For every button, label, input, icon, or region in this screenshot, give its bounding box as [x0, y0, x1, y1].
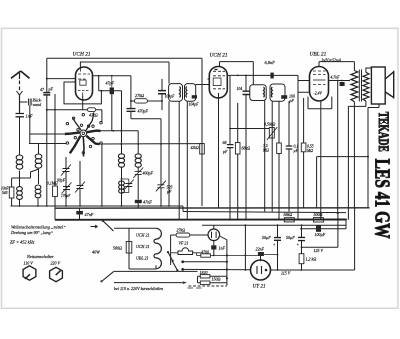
svg-text:500Ω: 500Ω [314, 212, 323, 217]
svg-text:110 V: 110 V [24, 260, 34, 265]
tube V3 UBL21 [310, 67, 329, 102]
IF T2 loop2 [270, 84, 285, 101]
wire grid to tube V1 [47, 78, 76, 80]
V1 internals [78, 68, 90, 96]
capacitor C 47pF grid1 [43, 93, 50, 95]
svg-text:UY 21: UY 21 [253, 284, 267, 290]
V4 wires [271, 269, 355, 271]
svg-text:27kΩ: 27kΩ [177, 228, 186, 233]
wire vertical x66 [65, 157, 67, 206]
V1 top cap wire [80, 62, 169, 84]
resistor R 47k [88, 108, 96, 112]
wire cathode row [47, 109, 88, 111]
switch contact dots [66, 114, 102, 155]
capacitor C 50uF b [298, 237, 305, 240]
bus R5 [183, 212, 346, 213]
V3 top wire to transformer [319, 62, 354, 71]
IF T1 cap 104pF [158, 91, 166, 94]
svg-text:TEKADE: TEKADE [375, 112, 391, 152]
svg-text:4700: 4700 [201, 249, 209, 254]
wire rueckwand to switch [30, 106, 65, 144]
wire y91 [99, 91, 122, 154]
coil L3 [35, 185, 41, 189]
resistor R 4700 [201, 254, 211, 257]
svg-text:pF: pF [166, 189, 172, 194]
V1 bottom loop [64, 82, 101, 104]
wire vertical x46.8 [46, 58, 48, 206]
svg-text:1820: 1820 [200, 270, 208, 275]
svg-text:UCH 21: UCH 21 [210, 53, 228, 59]
resistor R 27k heater [176, 233, 190, 237]
svg-text:VF 21: VF 21 [179, 241, 189, 246]
wire vertical x55 [54, 94, 56, 206]
lamp barretter [208, 229, 220, 241]
coil L1 [16, 155, 23, 160]
svg-text:100µF: 100µF [315, 232, 326, 237]
svg-text:42kΩ: 42kΩ [191, 146, 199, 150]
capacitor C 47pF grid2 [110, 88, 114, 95]
svg-text:pF: pF [222, 149, 228, 154]
switch S4 bottom [102, 272, 114, 282]
svg-text:22nF: 22nF [256, 247, 265, 252]
svg-text:LES 41 GW: LES 41 GW [371, 159, 395, 239]
svg-text:115 V: 115 V [281, 270, 291, 275]
T1 to V2 [196, 79, 210, 85]
oscillator vertical x130.9 [130, 76, 132, 109]
tube V1 UCH21 [76, 67, 93, 100]
svg-text:47pF: 47pF [106, 81, 115, 86]
T1 downs [168, 101, 170, 206]
secondary top to speaker [366, 68, 372, 72]
V3 socket box [308, 97, 332, 109]
resistor R 58k [284, 218, 294, 222]
V2 top wire [220, 62, 254, 85]
wire 125V [302, 213, 338, 248]
bus R4 [202, 224, 346, 226]
svg-text:Netzumschalter: Netzumschalter [26, 254, 54, 259]
resistor R 27k [134, 99, 147, 103]
trimmer C T2 [75, 182, 85, 193]
capacitor C 50uF a [274, 238, 281, 241]
variable capacitor C 400pF [133, 168, 143, 179]
V4 internals [257, 266, 262, 274]
V2 cathode down [218, 93, 220, 208]
svg-text:540: 540 [2, 191, 8, 195]
wire antenna down [19, 117, 21, 155]
bus R1 [11, 205, 184, 207]
svg-text:47nF: 47nF [85, 212, 94, 217]
capacitor C1 1nF [16, 114, 25, 117]
capacitor C 22nF black [258, 252, 264, 256]
wire y156 [317, 157, 368, 209]
svg-text:MΩ: MΩ [262, 149, 269, 153]
svg-text:68: 68 [223, 140, 227, 145]
svg-text:220 V: 220 V [51, 260, 61, 265]
knob K2 [50, 267, 63, 281]
bus R6 [300, 228, 346, 230]
capacitor C 47nF bus [76, 211, 83, 215]
svg-text:50µF: 50µF [262, 235, 271, 240]
T2 downs [264, 101, 266, 212]
tube V2 UCH21 [209, 67, 227, 98]
wire x102 down [101, 144, 103, 206]
svg-text:580Ω: 580Ω [113, 246, 122, 251]
svg-text:104: 104 [237, 87, 243, 91]
heater chain coils [154, 228, 161, 268]
svg-text:UCH 21: UCH 21 [73, 52, 91, 58]
bus R2 [55, 207, 370, 209]
svg-text:104pF: 104pF [165, 95, 176, 99]
trimmer C T1 [62, 183, 72, 194]
T4 core [359, 70, 361, 102]
coil L1b [17, 187, 23, 191]
svg-text:UCH 21: UCH 21 [136, 233, 149, 238]
capacitor C 68pF [227, 145, 234, 148]
IF T2 loop1 [250, 85, 266, 101]
svg-text:1nF: 1nF [26, 114, 33, 119]
wire AVC line [98, 143, 202, 145]
bus R3 heavy [55, 219, 346, 221]
trimmer C 525pF [156, 181, 166, 192]
svg-text:27kΩ: 27kΩ [135, 93, 144, 98]
coil L6 [119, 181, 125, 185]
outer loop [354, 208, 356, 270]
capacitor C 0,1uF [286, 146, 293, 149]
svg-text:+: + [297, 242, 300, 247]
capacitor C 100uF black [316, 225, 321, 232]
V2 plate wire [227, 74, 298, 76]
svg-text:bei 110 u. 220V kurzschließen: bei 110 u. 220V kurzschließen [114, 286, 163, 291]
resistor R 1,2k [299, 254, 304, 264]
wave switch S1 [65, 113, 101, 157]
IF T1 loop1 [169, 84, 183, 102]
svg-text:400pF: 400pF [143, 171, 154, 176]
secondary bottom return [348, 101, 366, 220]
coil L2 [35, 154, 42, 159]
svg-text:470pF: 470pF [138, 109, 149, 114]
svg-text:150Ω: 150Ω [212, 277, 221, 282]
svg-text:68kΩ: 68kΩ [242, 146, 251, 151]
V3 anode wire [329, 80, 351, 82]
svg-text:wand: wand [33, 102, 43, 107]
svg-text:10nF: 10nF [1, 187, 9, 191]
resistor R 150 [200, 281, 210, 284]
switch S3 contacts [168, 252, 173, 260]
V1 right pin wire [93, 75, 131, 77]
resistor R osc [200, 144, 205, 155]
svg-text:MΩ: MΩ [306, 149, 313, 153]
capacitor C 4,7nF black [340, 82, 345, 86]
resistor R 500 [313, 218, 323, 222]
svg-text:+: + [273, 241, 276, 246]
svg-text:UCH 21: UCH 21 [136, 244, 149, 249]
V2 internals [213, 70, 225, 89]
B+ feed down [337, 81, 339, 214]
capacitor C 47nF black [135, 200, 142, 203]
line A rectangle [47, 58, 202, 206]
contact dots 110/220 [181, 260, 184, 263]
speaker [371, 67, 385, 104]
tuning coil L4 [118, 154, 124, 159]
tuning coil L5 [135, 154, 141, 159]
capacitor C 6,8nF [270, 73, 273, 79]
svg-text:170pF: 170pF [61, 194, 71, 198]
switch S2 mains [103, 221, 114, 232]
V3 internals [313, 71, 326, 97]
resistor R 68k [235, 143, 240, 155]
primary bottom down [353, 102, 355, 208]
resistor R 580 [126, 242, 132, 254]
svg-text:UBL 21: UBL 21 [136, 256, 148, 261]
svg-text:58kΩ: 58kΩ [284, 212, 293, 217]
knob K1 [23, 266, 36, 280]
antenna [11, 71, 30, 113]
svg-text:UBL 21: UBL 21 [310, 52, 327, 58]
svg-text:47nF: 47nF [143, 200, 152, 205]
V3 cathode down [320, 101, 322, 220]
V1 cathode pin [82, 96, 84, 110]
trimmer C 90pF [61, 165, 71, 176]
resistor R 0,1M [53, 186, 58, 197]
trimmer C T3 [124, 180, 134, 191]
tube V4 UY21 [251, 260, 271, 280]
svg-text:40W: 40W [92, 250, 100, 255]
capacitor C 1nF black [211, 245, 216, 249]
speaker return down [368, 104, 379, 208]
svg-text:104pF: 104pF [189, 103, 200, 107]
wire switch right upper to coils [101, 131, 139, 154]
svg-text:47kΩ: 47kΩ [89, 113, 98, 118]
IF T1 loop2 [185, 84, 196, 102]
svg-text:pF: pF [48, 87, 54, 92]
svg-text:90pF: 90pF [57, 179, 66, 183]
svg-text:125 V: 125 V [314, 248, 324, 253]
svg-text:ZF = 452 kHz: ZF = 452 kHz [10, 240, 35, 245]
resistor R 0,55M [303, 98, 305, 208]
capacitor C 100pF black [281, 95, 287, 99]
resistor R 1820 [200, 275, 210, 278]
heater chain left [114, 228, 156, 269]
IF T2 cap 104 [243, 91, 250, 94]
svg-text:50µF: 50µF [286, 235, 295, 240]
resistor R 540 [9, 187, 14, 198]
capacitor C 470pF [127, 109, 136, 112]
capacitor C rueckwand [29, 99, 31, 106]
wire to V3 grid [298, 81, 310, 93]
T4 secondary [363, 72, 369, 101]
output transformer T4 primary [351, 71, 358, 102]
svg-text:1nF: 1nF [219, 246, 226, 251]
svg-text:µF: µF [294, 149, 299, 153]
